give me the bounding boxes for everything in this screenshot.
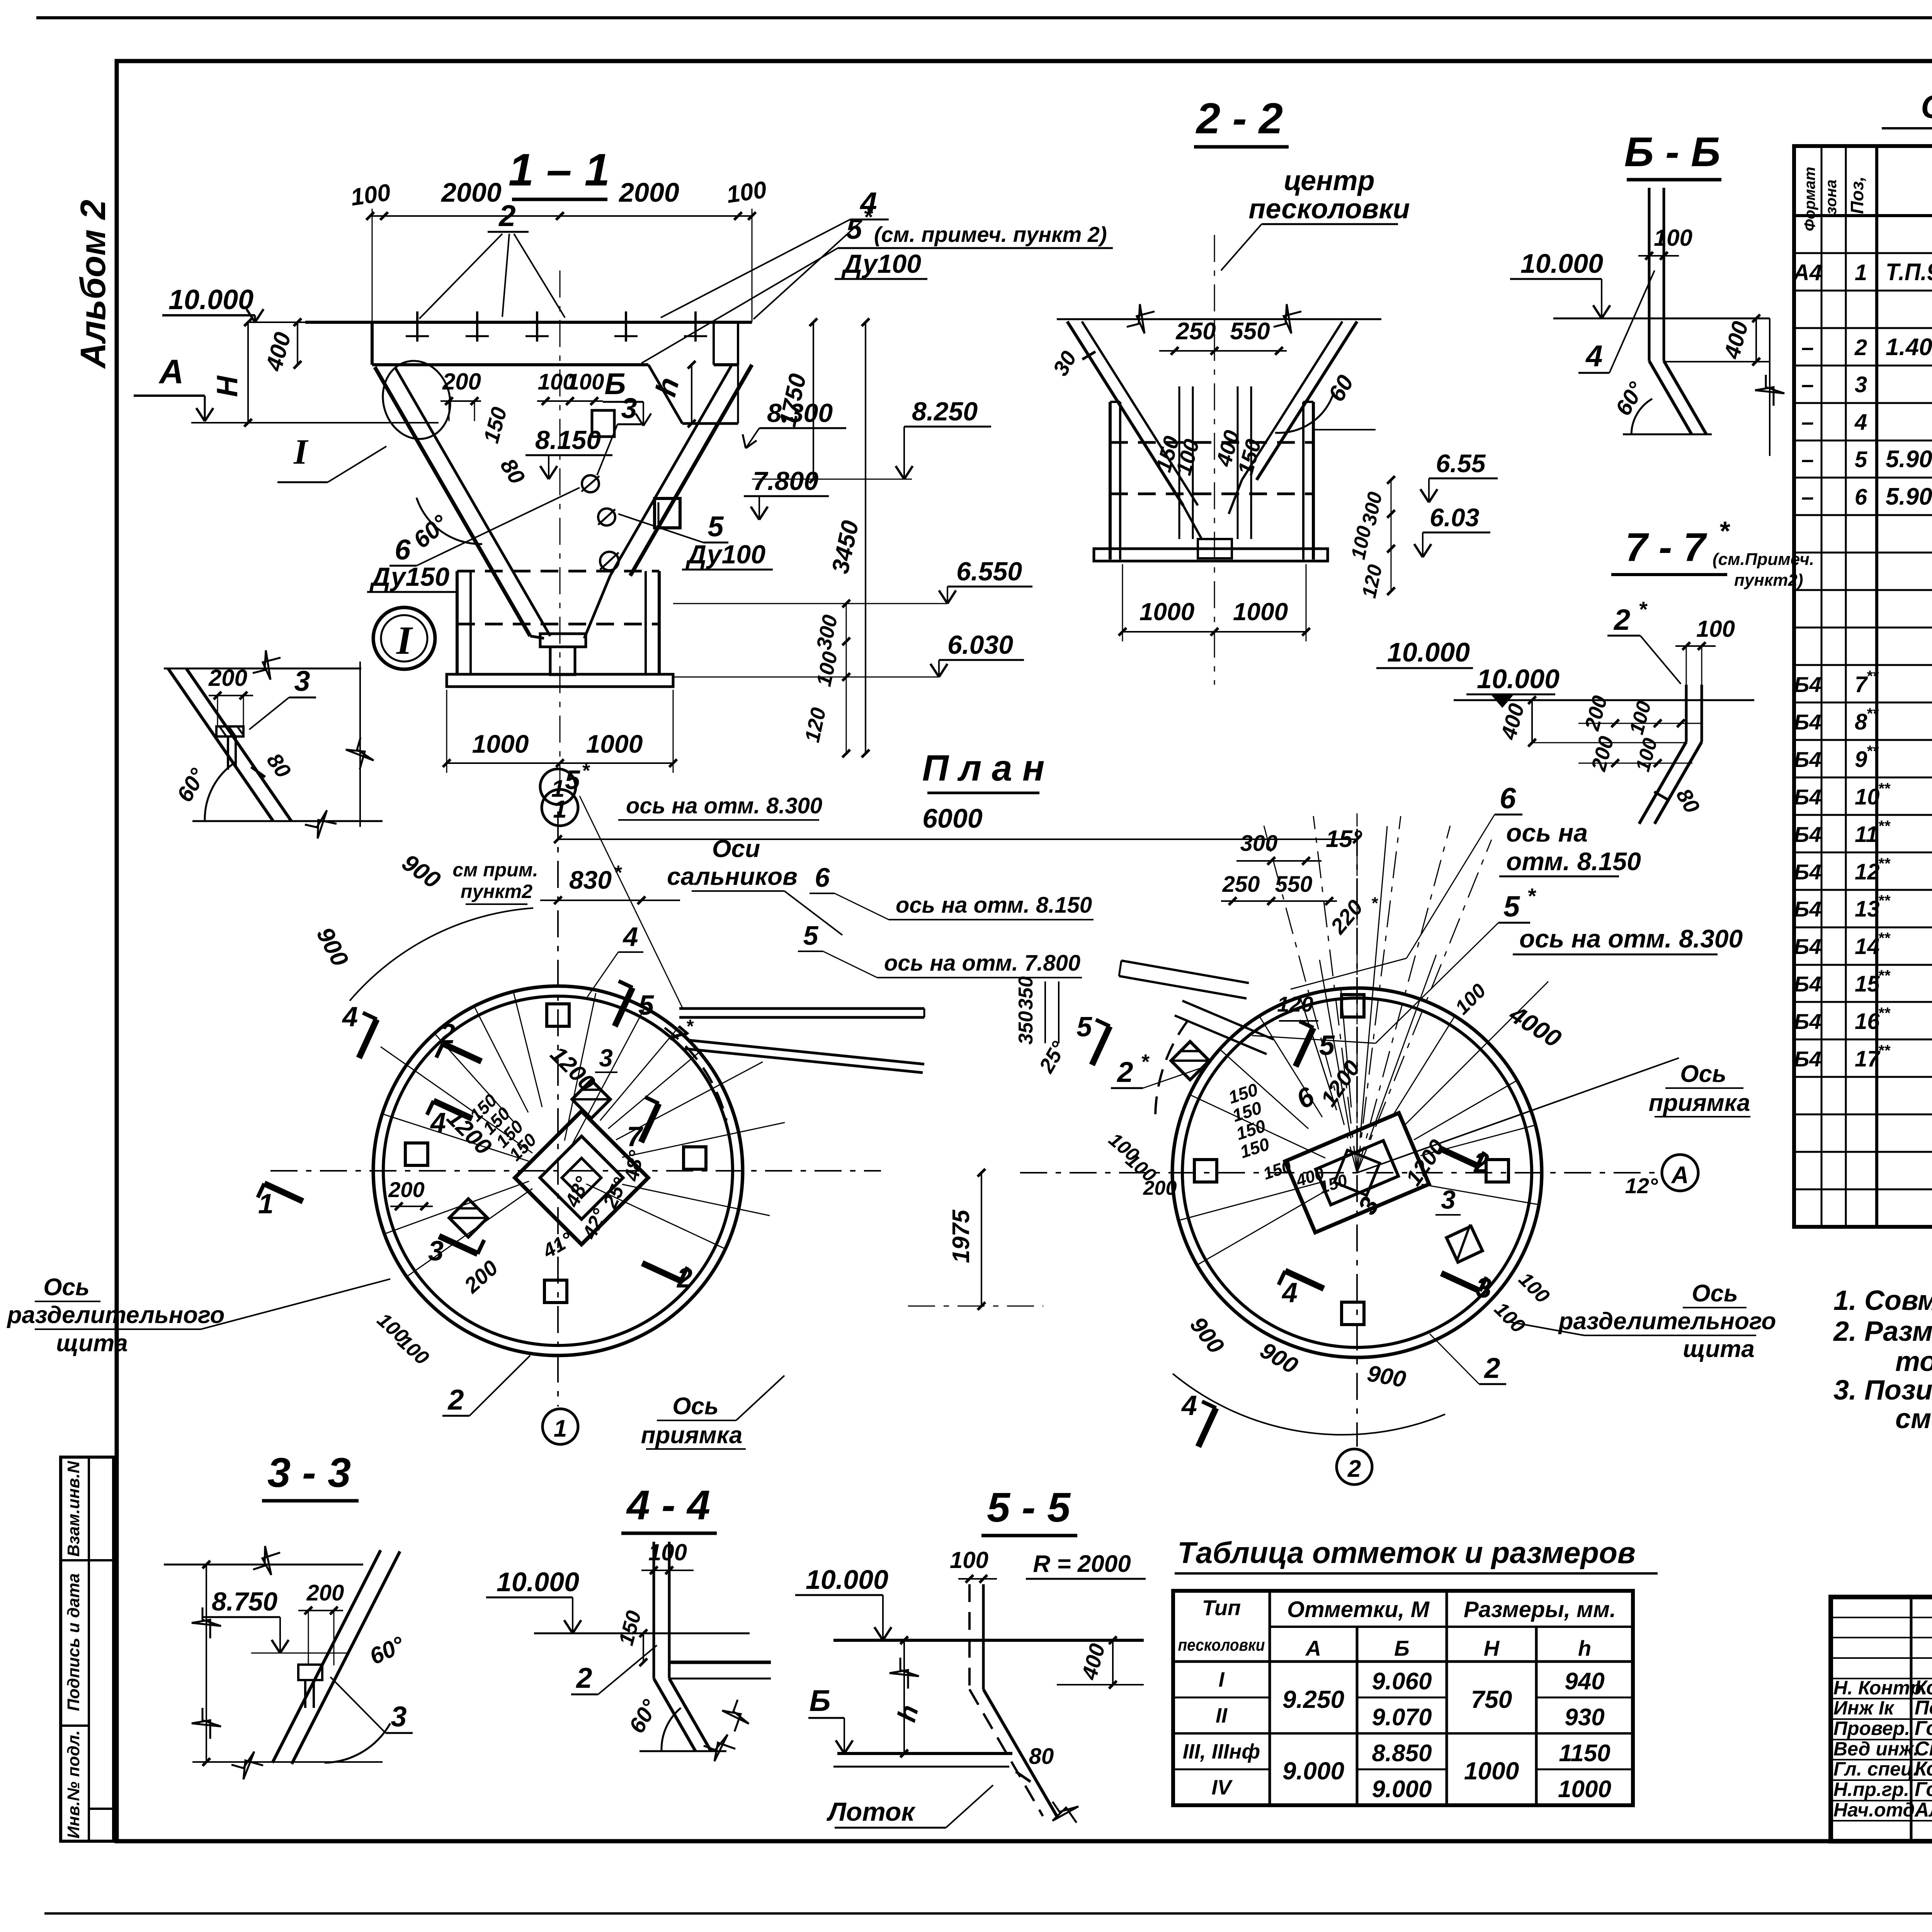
plan right ring squares bbox=[1342, 995, 1364, 1017]
3-3 slanted wall bbox=[292, 1551, 400, 1764]
1-1 1750 dim bbox=[813, 322, 814, 479]
svg-text:Гл. спец.: Гл. спец. bbox=[1833, 1758, 1918, 1780]
svg-text:*: * bbox=[1638, 597, 1648, 621]
svg-text:8: 8 bbox=[1855, 709, 1867, 735]
svg-text:5: 5 bbox=[565, 765, 580, 795]
4-4 level line bbox=[534, 1633, 750, 1634]
svg-text:**: ** bbox=[1866, 743, 1879, 760]
svg-text:разделительного: разделительного bbox=[7, 1302, 225, 1328]
svg-text:Вед инж.: Вед инж. bbox=[1833, 1738, 1919, 1760]
svg-text:6: 6 bbox=[1500, 782, 1516, 815]
plan left ring squares bbox=[547, 1004, 569, 1026]
left sidebar boxes bbox=[61, 1457, 114, 1841]
svg-text:ось на отм. 7.800: ось на отм. 7.800 bbox=[884, 951, 1080, 976]
svg-text:Н. Контр.: Н. Контр. bbox=[1833, 1677, 1927, 1699]
1-1 3450 dim bbox=[865, 322, 866, 753]
svg-text:4: 4 bbox=[342, 1002, 358, 1032]
svg-text:Альбом 2: Альбом 2 bbox=[73, 200, 113, 369]
4-4 slab lines right bbox=[669, 1661, 771, 1664]
5-5 h dim bbox=[903, 1640, 905, 1753]
svg-text:3: 3 bbox=[1855, 372, 1867, 397]
svg-text:2: 2 bbox=[498, 199, 515, 233]
svg-text:Взам.инв.N: Взам.инв.N bbox=[64, 1461, 83, 1557]
svg-text:3: 3 bbox=[391, 1701, 406, 1733]
svg-text:приямка: приямка bbox=[641, 1422, 743, 1449]
plan left central pit squares bbox=[515, 1111, 648, 1244]
plan left axis bubble 1 bottom bbox=[543, 1409, 578, 1444]
svg-text:Альтшуллер: Альтшуллер bbox=[1914, 1799, 1932, 1821]
svg-text:550: 550 bbox=[1230, 318, 1270, 345]
svg-text:5: 5 bbox=[707, 510, 724, 543]
svg-text:6000: 6000 bbox=[922, 803, 983, 833]
svg-text:–: – bbox=[1801, 372, 1814, 397]
svg-text:1000: 1000 bbox=[1233, 598, 1288, 626]
svg-text:4: 4 bbox=[1585, 339, 1602, 373]
svg-text:**: ** bbox=[1878, 818, 1891, 835]
svg-text:830: 830 bbox=[569, 866, 612, 894]
svg-text:Б4: Б4 bbox=[1794, 860, 1821, 884]
svg-text:1: 1 bbox=[1855, 260, 1867, 285]
svg-text:3 - 3: 3 - 3 bbox=[267, 1449, 351, 1496]
5-5 top line bbox=[833, 1639, 1144, 1642]
1-1 top dimension line 100/2000/2000/100 bbox=[370, 215, 752, 217]
svg-text:3: 3 bbox=[294, 665, 310, 697]
svg-text:разделительного: разделительного bbox=[1558, 1308, 1776, 1335]
svg-text:см. в ведомости деталей на л.: см. в ведомости деталей на л. КЖ-5 bbox=[1895, 1403, 1932, 1434]
svg-text:Ду100: Ду100 bbox=[841, 249, 921, 279]
detail I mesh bar item 3 bbox=[216, 726, 243, 736]
plan right 900 labels bottom bbox=[1173, 1374, 1445, 1435]
svg-text:Размеры, мм.: Размеры, мм. bbox=[1464, 1597, 1616, 1622]
Б-Б right break line bbox=[1769, 318, 1770, 456]
svg-text:940: 940 bbox=[1565, 1668, 1604, 1695]
svg-text:2: 2 bbox=[1483, 1352, 1500, 1384]
svg-text:**: ** bbox=[1878, 1042, 1891, 1059]
svg-text:песколовки: песколовки bbox=[1248, 194, 1410, 224]
1-1 200 dim bbox=[440, 400, 481, 402]
2-2 walls bbox=[1109, 402, 1112, 560]
plan left radial lines bbox=[565, 993, 596, 1141]
1-1 slab bbox=[305, 321, 752, 324]
svg-text:9.000: 9.000 bbox=[1282, 1757, 1344, 1785]
svg-text:120: 120 bbox=[1277, 992, 1313, 1016]
7-7 wall bbox=[1685, 685, 1688, 742]
svg-text:Б - Б: Б - Б bbox=[1624, 128, 1721, 175]
plan right cut marks bbox=[1092, 1026, 1110, 1065]
2-2 funnel right slope bbox=[1257, 321, 1357, 480]
svg-text:Ду100: Ду100 bbox=[685, 540, 765, 569]
svg-text:6.030: 6.030 bbox=[947, 630, 1013, 660]
plan right axis bubble A bbox=[1662, 1155, 1698, 1191]
svg-text:*: * bbox=[1371, 894, 1378, 913]
svg-text:I: I bbox=[1218, 1668, 1225, 1691]
svg-text:200: 200 bbox=[306, 1580, 344, 1605]
svg-text:П л а н: П л а н bbox=[922, 748, 1045, 789]
plan left hatched gland symbols bbox=[572, 1080, 611, 1119]
svg-text:6.550: 6.550 bbox=[956, 557, 1022, 586]
svg-text:1000: 1000 bbox=[1464, 1757, 1519, 1785]
svg-text:4: 4 bbox=[1854, 410, 1867, 435]
plan right inner circle bbox=[1182, 998, 1532, 1347]
plan left 900 arc labels bbox=[350, 908, 533, 1001]
svg-text:6.03: 6.03 bbox=[1430, 503, 1479, 532]
svg-text:Отметки, М: Отметки, М bbox=[1287, 1597, 1430, 1622]
svg-text:Формат: Формат bbox=[1801, 167, 1818, 231]
svg-text:**: ** bbox=[1878, 780, 1891, 797]
1-1 outlet foot bbox=[540, 634, 586, 647]
plan left leader from 5* bbox=[580, 796, 683, 1009]
svg-text:Козловичер: Козловичер bbox=[1915, 1677, 1932, 1699]
svg-text:4: 4 bbox=[622, 922, 638, 952]
svg-text:Б: Б bbox=[809, 1684, 830, 1718]
svg-text:Б4: Б4 bbox=[1794, 785, 1821, 809]
svg-text:6: 6 bbox=[815, 862, 830, 893]
svg-text:Поз,: Поз, bbox=[1847, 176, 1867, 214]
3-3 bottom line bbox=[192, 1761, 383, 1763]
1-1 400 dim bbox=[297, 322, 298, 365]
svg-text:12°: 12° bbox=[1625, 1173, 1658, 1198]
svg-text:10.000: 10.000 bbox=[806, 1565, 888, 1595]
plan left outer circle bbox=[373, 986, 743, 1355]
marks table grid bbox=[1173, 1591, 1633, 1805]
svg-text:250: 250 bbox=[1175, 318, 1216, 345]
svg-text:**: ** bbox=[1878, 930, 1891, 947]
svg-text:300: 300 bbox=[1240, 831, 1278, 856]
svg-text:2: 2 bbox=[1473, 1148, 1489, 1179]
svg-text:10: 10 bbox=[1855, 784, 1880, 810]
svg-text:–: – bbox=[1801, 447, 1814, 472]
svg-text:Ось: Ось bbox=[43, 1274, 90, 1301]
svg-text:II: II bbox=[1216, 1704, 1228, 1727]
svg-text:5: 5 bbox=[803, 920, 819, 951]
plan right gland symbol bbox=[1162, 1042, 1209, 1090]
7-7 400 dim bbox=[1531, 700, 1533, 743]
svg-text:Инж Iк: Инж Iк bbox=[1833, 1697, 1895, 1719]
svg-text:10.000: 10.000 bbox=[1387, 637, 1470, 667]
svg-text:2: 2 bbox=[1347, 1456, 1361, 1482]
svg-text:550: 550 bbox=[1275, 872, 1313, 897]
plan right dims 350 350 bbox=[1044, 981, 1046, 1043]
1-1 axis bubble 1 bbox=[542, 789, 578, 826]
1-1 100 100 dims bbox=[537, 400, 603, 402]
svg-text:А4: А4 bbox=[1793, 260, 1822, 285]
svg-text:Б4: Б4 bbox=[1794, 972, 1821, 996]
svg-text:Оси: Оси bbox=[712, 835, 760, 862]
svg-text:3: 3 bbox=[1441, 1185, 1456, 1214]
svg-text:I: I bbox=[293, 432, 309, 471]
2-2 outlet bbox=[1183, 505, 1202, 539]
svg-text:только для типа песколовки: только для типа песколовки - IIIнф. bbox=[1895, 1346, 1932, 1377]
svg-text:9.070: 9.070 bbox=[1372, 1704, 1432, 1731]
detail I slanted wall bbox=[168, 668, 273, 821]
spec table grid bbox=[1794, 146, 1932, 1227]
7-7 level line bbox=[1454, 699, 1754, 701]
svg-text:2: 2 bbox=[447, 1384, 464, 1416]
2-2 inner pipes bbox=[1179, 386, 1180, 539]
svg-text:16: 16 bbox=[1855, 1009, 1880, 1034]
svg-text:–: – bbox=[1801, 335, 1814, 360]
svg-text:Инв.№ подл.: Инв.№ подл. bbox=[64, 1730, 83, 1838]
svg-text:7: 7 bbox=[627, 1121, 643, 1152]
svg-text:100: 100 bbox=[567, 369, 604, 395]
title block frame bbox=[1831, 1597, 1932, 1841]
svg-text:1 – 1: 1 – 1 bbox=[509, 145, 610, 196]
svg-text:1000: 1000 bbox=[1558, 1776, 1611, 1803]
svg-text:9.000: 9.000 bbox=[1372, 1776, 1432, 1803]
detail I bottom line bbox=[192, 820, 383, 822]
svg-text:2: 2 bbox=[1613, 604, 1630, 636]
svg-text:пункт2): пункт2) bbox=[1734, 571, 1803, 590]
long leader lines bbox=[1291, 958, 1406, 989]
plan left inlet pipes bbox=[679, 1007, 924, 1010]
svg-text:350: 350 bbox=[1015, 976, 1037, 1010]
svg-text:*: * bbox=[582, 760, 590, 782]
svg-text:2000: 2000 bbox=[618, 177, 679, 207]
svg-text:1000: 1000 bbox=[1139, 598, 1194, 626]
1-1 60 deg arc bbox=[417, 498, 482, 544]
detail I right extension line bbox=[359, 662, 361, 827]
1-1 300 100 120 dims bbox=[846, 604, 847, 753]
svg-text:Таблица отметок и размеров: Таблица отметок и размеров bbox=[1177, 1536, 1636, 1570]
svg-text:ось на отм. 8.300: ось на отм. 8.300 bbox=[1519, 924, 1743, 953]
svg-text:7.800: 7.800 bbox=[753, 466, 818, 496]
1-1 slab hatch anchors bbox=[416, 311, 418, 342]
svg-text:Полякова: Полякова bbox=[1915, 1697, 1932, 1719]
svg-text:7 - 7: 7 - 7 bbox=[1625, 525, 1707, 570]
svg-text:1. Совместно с данным см.: 1. Совместно с данным см. л.л. КЖ-5, 2. bbox=[1833, 1285, 1932, 1316]
svg-text:III, IIIнф: III, IIIнф bbox=[1183, 1740, 1260, 1763]
5-5 lower lines bbox=[837, 1752, 1012, 1755]
svg-text:Козловичер: Козловичер bbox=[1915, 1758, 1932, 1780]
2-2 dim 250/550 bbox=[1159, 350, 1287, 352]
svg-text:Нач.отд.: Нач.отд. bbox=[1833, 1799, 1920, 1821]
svg-text:**: ** bbox=[1878, 967, 1891, 984]
svg-text:200: 200 bbox=[208, 665, 247, 691]
svg-text:10.000: 10.000 bbox=[1520, 248, 1603, 279]
3-3 top line bbox=[164, 1564, 363, 1566]
3-3 60 deg bbox=[325, 1723, 390, 1763]
outer bottom border line bbox=[44, 1912, 1932, 1915]
svg-text:*: * bbox=[863, 204, 873, 230]
svg-text:4: 4 bbox=[1181, 1390, 1197, 1421]
svg-text:5: 5 bbox=[846, 213, 863, 245]
plan right axis bubble 2 bbox=[1337, 1449, 1372, 1485]
plan right ось приямка axis bbox=[1357, 1058, 1679, 1173]
Б-Б level line bbox=[1553, 318, 1770, 320]
svg-text:1: 1 bbox=[554, 1415, 567, 1442]
plan left axis bubble 1 top bbox=[540, 769, 576, 804]
svg-text:200: 200 bbox=[388, 1177, 424, 1202]
svg-text:930: 930 bbox=[1565, 1704, 1604, 1731]
svg-text:9: 9 bbox=[1855, 747, 1867, 772]
svg-text:80: 80 bbox=[1029, 1744, 1054, 1769]
3-3 left dim line bbox=[206, 1565, 207, 1762]
svg-text:9.060: 9.060 bbox=[1372, 1668, 1432, 1695]
dim 1975 between plans bbox=[981, 1173, 982, 1306]
svg-text:А: А bbox=[1671, 1162, 1689, 1189]
svg-text:**: ** bbox=[1866, 705, 1879, 722]
svg-text:1: 1 bbox=[551, 776, 565, 802]
svg-text:Н: Н bbox=[1484, 1636, 1500, 1660]
4-4 60 deg bbox=[662, 1708, 681, 1750]
2-2 60deg bbox=[1275, 392, 1334, 433]
svg-text:Ось: Ось bbox=[1692, 1280, 1738, 1307]
plan left inner circle bbox=[383, 996, 733, 1345]
2-2 top slab line bbox=[1057, 318, 1381, 320]
plan right outer circle bbox=[1172, 988, 1542, 1357]
2-2 funnel left slope bbox=[1067, 321, 1183, 505]
svg-text:2. Размеры, позиции, обозначен: 2. Размеры, позиции, обозначенные знаком… bbox=[1833, 1316, 1932, 1347]
4-4 wall bbox=[653, 1542, 655, 1679]
svg-text:3: 3 bbox=[599, 1044, 613, 1072]
svg-text:щита: щита bbox=[56, 1330, 128, 1357]
svg-text:10.000: 10.000 bbox=[1477, 664, 1560, 694]
svg-text:10.000: 10.000 bbox=[168, 284, 253, 315]
plan right inlet pipes top-left bbox=[1121, 961, 1249, 983]
svg-text:зона: зона bbox=[1823, 180, 1840, 215]
svg-text:100: 100 bbox=[950, 1547, 988, 1573]
svg-text:Б: Б bbox=[1394, 1636, 1410, 1660]
svg-text:Б4: Б4 bbox=[1794, 710, 1821, 734]
svg-text:**: ** bbox=[1878, 892, 1891, 909]
svg-text:А: А bbox=[158, 352, 184, 391]
svg-text:Лоток: Лоток bbox=[826, 1797, 916, 1827]
svg-text:Спецификация на бункер песколо: Спецификация на бункер песколовки bbox=[1921, 88, 1932, 125]
svg-text:250: 250 bbox=[1222, 872, 1260, 897]
svg-text:200: 200 bbox=[1143, 1177, 1177, 1199]
svg-text:5: 5 bbox=[1077, 1012, 1092, 1043]
2-2 right small dims bbox=[1391, 480, 1392, 591]
svg-text:приямка: приямка bbox=[1649, 1090, 1750, 1116]
svg-text:3. Позиции в спецификации,: 3. Позиции в спецификации, обозначенные … bbox=[1833, 1375, 1932, 1406]
plan right central pit bbox=[1285, 1113, 1429, 1232]
svg-text:песколовки: песколовки bbox=[1178, 1636, 1265, 1655]
svg-text:100: 100 bbox=[1654, 225, 1692, 251]
svg-text:2: 2 bbox=[1116, 1056, 1133, 1088]
svg-text:Б4: Б4 bbox=[1794, 934, 1821, 959]
svg-text:1000: 1000 bbox=[472, 730, 529, 758]
svg-text:IV: IV bbox=[1211, 1776, 1233, 1799]
svg-text:4: 4 bbox=[1281, 1277, 1298, 1308]
svg-text:ось на: ось на bbox=[1506, 818, 1588, 847]
1-1 small fittings bbox=[582, 475, 599, 492]
svg-text:2: 2 bbox=[1854, 335, 1867, 360]
svg-text:100: 100 bbox=[1696, 616, 1735, 642]
1-1 left funnel wall bbox=[375, 367, 530, 636]
svg-text:пункт2: пункт2 bbox=[461, 881, 532, 902]
svg-text:**: ** bbox=[1878, 855, 1891, 872]
svg-text:Провер.: Провер. bbox=[1833, 1718, 1910, 1739]
1-1 base plate bbox=[447, 674, 673, 687]
1-1 bunker walls bbox=[456, 571, 459, 674]
svg-text:100: 100 bbox=[725, 176, 768, 208]
plan right dashed arc bbox=[1155, 1020, 1188, 1121]
1-1 bunker dashed levels bbox=[457, 570, 659, 573]
svg-text:*: * bbox=[1141, 1050, 1150, 1073]
2-2 bottom dim 1000/1000 bbox=[1122, 631, 1306, 633]
plan right axes bbox=[1020, 1172, 1662, 1173]
svg-text:1975: 1975 bbox=[948, 1209, 975, 1263]
3-3 notch bbox=[298, 1665, 322, 1680]
svg-text:*: * bbox=[686, 1016, 694, 1037]
svg-text:–: – bbox=[1801, 410, 1814, 435]
1-1 bottom dim 1000/1000 bbox=[447, 762, 673, 764]
svg-text:1150: 1150 bbox=[1559, 1740, 1610, 1767]
1-1 Б inlet step bbox=[648, 365, 682, 423]
svg-text:2: 2 bbox=[439, 1019, 455, 1049]
dim 6000 between plans bbox=[558, 838, 1357, 840]
svg-text:сальников: сальников bbox=[667, 862, 798, 890]
svg-text:щита: щита bbox=[1683, 1336, 1754, 1362]
svg-text:(см.Примеч.: (см.Примеч. bbox=[1713, 550, 1814, 569]
svg-text:*: * bbox=[1719, 516, 1730, 546]
svg-text:750: 750 bbox=[1471, 1685, 1512, 1713]
svg-text:Ду150: Ду150 bbox=[369, 562, 449, 592]
svg-text:Т.П.902-2-479.90-КЖ.И-10000: Т.П.902-2-479.90-КЖ.И-10000 bbox=[1886, 259, 1932, 286]
svg-text:12: 12 bbox=[1855, 859, 1880, 884]
svg-text:Б4: Б4 bbox=[1794, 747, 1821, 772]
plan left cut marks bbox=[443, 1044, 481, 1061]
plan left axes bbox=[270, 1170, 881, 1172]
svg-text:Подпись и дата: Подпись и дата bbox=[64, 1573, 83, 1711]
svg-text:(см. примеч. пункт 2): (см. примеч. пункт 2) bbox=[874, 222, 1107, 247]
svg-text:Гольдина: Гольдина bbox=[1915, 1717, 1932, 1740]
plan right fan dashdot lines bbox=[1357, 816, 1401, 1173]
svg-text:5: 5 bbox=[1503, 890, 1520, 923]
1-1 centerline bbox=[560, 270, 561, 788]
svg-text:центр: центр bbox=[1284, 165, 1374, 196]
svg-text:Станина: Станина bbox=[1915, 1738, 1932, 1760]
Б-Б 400 dim bbox=[1664, 361, 1770, 362]
svg-text:5.900-2: 5.900-2 bbox=[1886, 446, 1932, 473]
svg-text:6.55: 6.55 bbox=[1436, 449, 1486, 478]
svg-text:14: 14 bbox=[1855, 934, 1880, 959]
svg-text:Н: Н bbox=[211, 375, 244, 397]
detail I 60 deg bbox=[205, 762, 236, 820]
svg-text:*: * bbox=[1527, 884, 1536, 908]
detail I top line bbox=[164, 668, 361, 670]
svg-text:11: 11 bbox=[1855, 822, 1878, 847]
plan right radial lines bbox=[1360, 826, 1387, 1138]
svg-text:**: ** bbox=[1866, 668, 1879, 685]
svg-text:R = 2000: R = 2000 bbox=[1033, 1551, 1131, 1577]
2-2 dashed levels bbox=[1110, 441, 1313, 444]
svg-text:Н.пр.гр.: Н.пр.гр. bbox=[1833, 1779, 1909, 1800]
1-1 H dim bbox=[247, 322, 249, 423]
svg-text:1000: 1000 bbox=[586, 730, 643, 758]
svg-text:3: 3 bbox=[621, 392, 637, 424]
svg-text:Гольдина: Гольдина bbox=[1915, 1778, 1932, 1801]
7-7 offset dims 200/200/100/100 bbox=[1578, 723, 1702, 724]
plan left dashed ring arc bbox=[665, 1028, 726, 1121]
svg-text:15: 15 bbox=[1855, 971, 1880, 997]
svg-text:Б4: Б4 bbox=[1794, 672, 1821, 697]
svg-text:ось на отм. 8.300: ось на отм. 8.300 bbox=[626, 793, 822, 818]
svg-text:8.250: 8.250 bbox=[912, 397, 978, 426]
svg-text:1.400-15.В1.120 -11: 1.400-15.В1.120 -11 bbox=[1886, 334, 1932, 361]
svg-text:2000: 2000 bbox=[440, 177, 502, 207]
svg-text:Ось: Ось bbox=[1680, 1061, 1726, 1087]
svg-text:ось на отм. 8.150: ось на отм. 8.150 bbox=[896, 893, 1092, 918]
svg-text:4 - 4: 4 - 4 bbox=[626, 1481, 710, 1528]
svg-text:5 - 5: 5 - 5 bbox=[987, 1484, 1071, 1531]
outer top border line bbox=[36, 16, 1932, 19]
Б-Б wall bbox=[1648, 188, 1651, 361]
svg-text:10.000: 10.000 bbox=[497, 1567, 579, 1597]
svg-text:8.850: 8.850 bbox=[1372, 1740, 1432, 1767]
svg-text:15°: 15° bbox=[1326, 826, 1362, 852]
svg-text:Б4: Б4 bbox=[1794, 822, 1821, 847]
